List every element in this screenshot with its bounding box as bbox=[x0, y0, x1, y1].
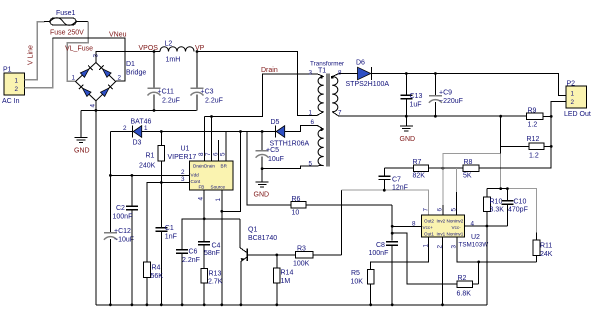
svg-text:1: 1 bbox=[15, 78, 19, 85]
junction Vcc/R2 branch bbox=[391, 232, 394, 235]
wire gray sense jumper bbox=[443, 153, 501, 168]
resistor R2 bbox=[457, 262, 479, 298]
junction rail C12 bbox=[109, 303, 112, 306]
junction Vdd/C2 bbox=[131, 174, 134, 177]
resistor R7 bbox=[413, 159, 464, 180]
junction supply/source leg bbox=[239, 130, 242, 133]
resistor R10 bbox=[484, 189, 505, 226]
wire primary ground rail under bridge bbox=[81, 109, 197, 111]
svg-text:+C9: +C9 bbox=[439, 90, 452, 97]
svg-text:D5: D5 bbox=[271, 119, 280, 126]
svg-text:5: 5 bbox=[309, 161, 313, 168]
junction R10C10/R11 gray bbox=[506, 187, 509, 190]
wire R10C10 top node bbox=[487, 188, 508, 190]
svg-text:R3: R3 bbox=[297, 246, 306, 253]
svg-text:GND: GND bbox=[400, 136, 416, 143]
wire fuse to bridge pin1 (VL_Fuse net, gray) bbox=[67, 22, 88, 82]
svg-text:~220uF: ~220uF bbox=[439, 98, 463, 105]
wire Q1 base bbox=[247, 254, 295, 256]
resistor R6 bbox=[291, 196, 392, 217]
junction rail R4 bbox=[146, 303, 149, 306]
junction rail U2 pin2 bbox=[441, 303, 444, 306]
junction LED-/R9 bbox=[550, 115, 553, 118]
junction rail C8 bbox=[391, 303, 394, 306]
svg-text:2: 2 bbox=[571, 99, 575, 106]
wire VNeu net bbox=[53, 38, 126, 81]
wire FB node (U1) bbox=[182, 219, 240, 250]
svg-text:1: 1 bbox=[309, 110, 313, 117]
svg-text:100K: 100K bbox=[293, 261, 310, 268]
svg-text:R6: R6 bbox=[292, 196, 301, 203]
svg-text:VNeu: VNeu bbox=[109, 32, 127, 39]
wire Out2 gray run to U2 pin7 bbox=[342, 190, 429, 215]
svg-text:D6: D6 bbox=[356, 60, 365, 67]
svg-text:2: 2 bbox=[123, 125, 127, 132]
capacitor C12 (polarized) bbox=[104, 175, 134, 304]
diode D6 STPS2H100A bbox=[346, 60, 390, 89]
svg-text:1: 1 bbox=[215, 198, 222, 202]
svg-text:R4: R4 bbox=[152, 265, 161, 272]
svg-text:+C3: +C3 bbox=[201, 89, 214, 96]
wire R11 gray feed bbox=[507, 189, 536, 233]
junction sense/R10C10 bbox=[499, 187, 502, 190]
svg-text:2: 2 bbox=[181, 169, 185, 176]
svg-text:VIPER17: VIPER17 bbox=[168, 154, 197, 161]
svg-text:1uF: 1uF bbox=[410, 102, 422, 109]
svg-text:Vdd: Vdd bbox=[191, 172, 200, 177]
junction rail Q1 emitter bbox=[240, 303, 243, 306]
svg-text:24K: 24K bbox=[540, 251, 553, 258]
wire P1 pin2 (VNeu net, gray part) bbox=[25, 38, 53, 88]
svg-text:1M: 1M bbox=[281, 278, 291, 285]
wire U2 pin1 Out1 to R5 bbox=[371, 237, 429, 269]
capacitor C10 bbox=[501, 189, 527, 226]
resistor R4 bbox=[144, 262, 164, 305]
svg-text:R2: R2 bbox=[458, 275, 467, 282]
svg-text:U1: U1 bbox=[181, 146, 190, 153]
svg-text:5: 5 bbox=[451, 208, 458, 212]
svg-text:Drain: Drain bbox=[261, 67, 278, 74]
resistor R14 bbox=[273, 255, 293, 305]
wire Cont net bbox=[147, 183, 190, 263]
svg-text:V Line: V Line bbox=[28, 45, 35, 65]
svg-text:C2: C2 bbox=[116, 205, 125, 212]
svg-text:U2: U2 bbox=[471, 234, 480, 241]
capacitor C1 bbox=[155, 183, 177, 305]
transformer T1 bbox=[309, 61, 345, 168]
svg-text:5K: 5K bbox=[463, 173, 472, 180]
ground symbol under C5 bbox=[254, 169, 270, 199]
svg-text:~10uF: ~10uF bbox=[114, 237, 134, 244]
capacitor C13 bbox=[400, 74, 422, 126]
capacitor C5 (polarized) bbox=[256, 132, 284, 169]
wire left riser to bottom rail bbox=[95, 110, 97, 304]
svg-text:P1: P1 bbox=[3, 67, 12, 74]
wire U2 pin2 to bottom rail bbox=[442, 237, 444, 305]
svg-text:8: 8 bbox=[198, 152, 205, 156]
transistor Q1 BC817-40 bbox=[240, 219, 277, 305]
wire pin6 feed bbox=[442, 168, 444, 205]
wire bridge pin4 down bbox=[95, 101, 97, 111]
svg-text:4: 4 bbox=[198, 197, 205, 201]
svg-text:6: 6 bbox=[311, 119, 315, 126]
capacitor C4 bbox=[198, 242, 220, 269]
capacitor C2 bbox=[113, 175, 138, 304]
svg-text:10K: 10K bbox=[351, 279, 364, 286]
svg-text:6.8K: 6.8K bbox=[457, 291, 472, 298]
IC U2 TSM103W bbox=[412, 208, 488, 249]
svg-text:D3: D3 bbox=[133, 140, 142, 147]
junction C7 / Out2 bbox=[383, 189, 386, 192]
svg-text:T1: T1 bbox=[318, 68, 326, 75]
junction FB bbox=[203, 217, 206, 220]
junction VP / C3 bbox=[196, 50, 199, 53]
wire Drain net bbox=[204, 74, 317, 117]
svg-text:DrainDrain: DrainDrain bbox=[193, 163, 215, 168]
resistor R8 bbox=[463, 159, 551, 180]
svg-text:Transformer: Transformer bbox=[310, 61, 344, 68]
wire D5 anode to aux pin6 bbox=[285, 125, 317, 131]
svg-text:3: 3 bbox=[451, 245, 458, 249]
fuse Fuse1 bbox=[44, 10, 88, 37]
inductor L2 bbox=[160, 41, 194, 64]
svg-text:GND: GND bbox=[254, 192, 270, 199]
junction rail R13 bbox=[203, 303, 206, 306]
svg-text:R5: R5 bbox=[351, 270, 360, 277]
svg-text:1: 1 bbox=[72, 75, 76, 82]
junction Vdd/C12 bbox=[109, 174, 112, 177]
svg-text:58nF: 58nF bbox=[204, 250, 220, 257]
svg-text:R12: R12 bbox=[527, 136, 540, 143]
resistor R13 bbox=[201, 268, 223, 305]
junction rail C6 bbox=[181, 303, 184, 306]
wire U1 pin5 BR bbox=[225, 132, 227, 162]
svg-text:BC81740: BC81740 bbox=[248, 235, 277, 242]
wire supply rail (aux supply) bbox=[110, 131, 132, 133]
bridge diode bottom-left bbox=[79, 85, 91, 97]
svg-text:10uF: 10uF bbox=[268, 156, 284, 163]
svg-text:1: 1 bbox=[144, 125, 148, 132]
wire aux pin5 return bbox=[262, 166, 317, 169]
svg-text:2.2uF: 2.2uF bbox=[205, 98, 223, 105]
junction D6 rail / C9 bbox=[434, 72, 437, 75]
svg-text:Inv2: Inv2 bbox=[437, 219, 446, 224]
junction C11/rail bbox=[153, 109, 156, 112]
svg-text:3: 3 bbox=[181, 176, 185, 183]
svg-text:1: 1 bbox=[571, 91, 575, 98]
svg-text:100nF: 100nF bbox=[113, 214, 133, 221]
svg-text:Out2: Out2 bbox=[424, 219, 434, 224]
svg-text:Q1: Q1 bbox=[248, 227, 257, 234]
svg-text:2: 2 bbox=[118, 75, 122, 82]
svg-text:STPS2H100A: STPS2H100A bbox=[346, 81, 390, 88]
junction R8/pin6 bbox=[442, 167, 445, 170]
svg-text:L2: L2 bbox=[165, 41, 173, 48]
junction supply/R1 bbox=[160, 130, 163, 133]
svg-text:Cont: Cont bbox=[191, 179, 201, 184]
svg-text:Vcc+: Vcc+ bbox=[423, 225, 434, 230]
bridge diode bottom-right bbox=[100, 85, 112, 97]
capacitor C7 bbox=[378, 168, 413, 191]
svg-text:D1: D1 bbox=[126, 61, 135, 68]
svg-text:FB: FB bbox=[199, 185, 205, 190]
junction rail C1 bbox=[160, 303, 163, 306]
svg-text:R9: R9 bbox=[528, 108, 537, 115]
junction rail source bbox=[220, 303, 223, 306]
svg-text:82K: 82K bbox=[413, 173, 426, 180]
svg-text:R1: R1 bbox=[146, 153, 155, 160]
svg-text:+C5: +C5 bbox=[266, 147, 279, 154]
bridge diode top-right bbox=[99, 65, 111, 77]
wire U1 FB pin to C4 bbox=[203, 190, 205, 241]
wire U1 Source pin to bottom rail bbox=[221, 190, 223, 305]
svg-text:R8: R8 bbox=[464, 159, 473, 166]
connector P2 bbox=[564, 81, 591, 119]
wire U2 Vcc node vertical bbox=[391, 205, 393, 241]
resistor R9 bbox=[527, 108, 552, 129]
wire secondary return / sense rail bbox=[339, 115, 527, 117]
wire P1 pin1 to fuse (V Line net, gray) bbox=[25, 22, 45, 80]
wire pin5 feed bbox=[456, 168, 458, 192]
svg-text:Source: Source bbox=[211, 185, 226, 190]
svg-text:7: 7 bbox=[423, 208, 430, 212]
svg-text:BAT46: BAT46 bbox=[131, 119, 152, 126]
wire Vdd net bbox=[110, 132, 189, 176]
svg-text:12nF: 12nF bbox=[392, 185, 408, 192]
svg-text:R7: R7 bbox=[413, 159, 422, 166]
junction rail R14 bbox=[275, 303, 278, 306]
resistor R12 bbox=[501, 136, 552, 160]
svg-text:470pF: 470pF bbox=[508, 207, 528, 214]
wire source leg bbox=[222, 132, 241, 212]
junction pin3/R2 bbox=[477, 261, 480, 264]
bridge diode top-left bbox=[80, 65, 92, 77]
aux winding bbox=[318, 129, 324, 165]
svg-text:STTH1R06A: STTH1R06A bbox=[270, 141, 310, 148]
junction C9 / sense rail bbox=[434, 115, 437, 118]
wire U2 pin4 line bbox=[464, 225, 507, 227]
svg-text:Bridge: Bridge bbox=[126, 70, 146, 77]
svg-text:2.7K: 2.7K bbox=[208, 279, 223, 286]
resistor R11 bbox=[533, 232, 553, 262]
svg-text:C13: C13 bbox=[410, 93, 423, 100]
junction C13 / sense rail bbox=[405, 115, 408, 118]
capacitor C3 (polarized) bbox=[191, 52, 223, 111]
svg-text:7: 7 bbox=[338, 110, 342, 117]
svg-text:3.3K: 3.3K bbox=[490, 207, 505, 214]
wire R6 supply feed bbox=[247, 132, 291, 205]
capacitor C11 (polarized) bbox=[148, 52, 180, 111]
svg-text:P2: P2 bbox=[567, 81, 576, 88]
secondary winding bbox=[332, 77, 338, 112]
wire Out2 riser bbox=[341, 190, 343, 255]
svg-text:R10: R10 bbox=[490, 199, 503, 206]
svg-text:VPOS: VPOS bbox=[139, 45, 159, 52]
svg-text:TSM103W: TSM103W bbox=[459, 242, 489, 249]
svg-text:C1: C1 bbox=[165, 225, 174, 232]
svg-text:R11: R11 bbox=[540, 243, 552, 250]
wire sense node vertical bbox=[500, 116, 502, 154]
resistor R3 bbox=[293, 246, 342, 268]
svg-text:2: 2 bbox=[15, 86, 19, 93]
junction VPOS / C11 bbox=[153, 50, 156, 53]
svg-text:1nF: 1nF bbox=[165, 234, 177, 241]
svg-text:8: 8 bbox=[412, 221, 416, 228]
junction rail R5 bbox=[369, 303, 372, 306]
capacitor C8 bbox=[369, 242, 399, 305]
wire bottom rail bbox=[96, 304, 487, 306]
wire R2 feed branch bbox=[392, 233, 457, 284]
junction sense rail top bbox=[499, 115, 502, 118]
bridge rectifier D1 bbox=[72, 54, 147, 108]
wire secondary output rail bbox=[339, 73, 358, 75]
junction Vcc/pin8 bbox=[391, 225, 394, 228]
svg-text:BR: BR bbox=[221, 163, 228, 168]
wire pin3 node bbox=[457, 237, 536, 262]
svg-text:10: 10 bbox=[292, 210, 300, 217]
svg-text:56K: 56K bbox=[151, 273, 164, 280]
svg-text:Noninv1: Noninv1 bbox=[447, 231, 464, 236]
junction drain pin7 bbox=[210, 115, 213, 118]
capacitor C6 bbox=[176, 249, 200, 305]
junction C5/aux return bbox=[261, 167, 264, 170]
svg-text:+C12: +C12 bbox=[114, 228, 131, 235]
wire P2 pin2 LED- bbox=[479, 102, 566, 169]
svg-text:3: 3 bbox=[309, 70, 313, 77]
svg-text:Noninv2: Noninv2 bbox=[447, 219, 464, 224]
svg-text:+C11: +C11 bbox=[158, 89, 175, 96]
svg-text:6: 6 bbox=[437, 208, 444, 212]
wire VP to transformer pin1 bbox=[196, 52, 317, 116]
junction base/R14 bbox=[275, 254, 278, 257]
svg-text:C4: C4 bbox=[212, 243, 221, 250]
svg-text:C7: C7 bbox=[392, 177, 401, 184]
junction LED-/R12 bbox=[550, 145, 553, 148]
wire U1 drain pins 8,7 bbox=[203, 117, 205, 162]
capacitor C9 (polarized) bbox=[429, 74, 463, 117]
resistor R1 bbox=[139, 132, 165, 183]
svg-text:C6: C6 bbox=[189, 249, 198, 256]
svg-text:LED Out: LED Out bbox=[564, 111, 591, 118]
svg-text:R13: R13 bbox=[209, 271, 222, 278]
diode D5 STTH1R06A bbox=[270, 119, 310, 148]
IC U1 VIPER17 bbox=[168, 146, 234, 202]
primary winding bbox=[318, 77, 324, 112]
wire pin4 to bottom rail bbox=[486, 226, 488, 305]
junction pin4/R10 bbox=[486, 225, 489, 228]
ground symbol under bridge bbox=[74, 110, 90, 154]
svg-text:1.2: 1.2 bbox=[529, 153, 539, 160]
diode D3 BAT46 bbox=[123, 119, 151, 147]
svg-text:AC In: AC In bbox=[2, 98, 20, 105]
svg-text:GND: GND bbox=[74, 148, 90, 155]
svg-text:C8: C8 bbox=[376, 242, 385, 249]
connector P1 bbox=[2, 67, 25, 106]
wire U2 pin8 stub bbox=[392, 225, 421, 227]
junction source jog bbox=[220, 210, 223, 213]
junction rail C2 bbox=[131, 303, 134, 306]
svg-text:R14: R14 bbox=[281, 270, 294, 277]
svg-text:Out1: Out1 bbox=[424, 231, 434, 236]
wire U1 pin6 stub bbox=[218, 140, 220, 161]
svg-text:2.2nF: 2.2nF bbox=[182, 257, 200, 264]
wire bridge pin3 to VPOS bbox=[96, 52, 160, 63]
svg-text:1.2: 1.2 bbox=[528, 122, 538, 129]
junction supply/C5 bbox=[261, 130, 264, 133]
svg-text:1mH: 1mH bbox=[166, 57, 181, 64]
junction bridge4/rail bbox=[95, 109, 98, 112]
svg-text:Fuse1: Fuse1 bbox=[56, 10, 76, 17]
svg-text:2.2uF: 2.2uF bbox=[162, 98, 180, 105]
svg-text:100nF: 100nF bbox=[369, 250, 389, 257]
junction D6 rail / C13 bbox=[405, 72, 408, 75]
junction Cont/R1/C1 bbox=[160, 181, 163, 184]
svg-text:Inv1: Inv1 bbox=[437, 231, 446, 236]
resistor R5 bbox=[351, 269, 375, 305]
svg-text:Fuse 250V: Fuse 250V bbox=[50, 30, 84, 37]
svg-text:C10: C10 bbox=[514, 199, 527, 206]
svg-text:240K: 240K bbox=[139, 163, 156, 170]
svg-text:VL_Fuse: VL_Fuse bbox=[65, 46, 93, 53]
svg-text:Vcc-: Vcc- bbox=[452, 225, 462, 230]
ground symbol under C13 bbox=[400, 126, 416, 143]
